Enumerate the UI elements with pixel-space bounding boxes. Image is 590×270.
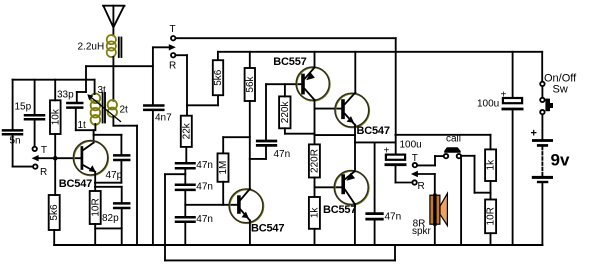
wire left top rail xyxy=(13,79,95,81)
wire 15p to T contact xyxy=(34,121,36,147)
speaker 8R xyxy=(430,193,448,225)
svg-text:47n: 47n xyxy=(274,149,291,160)
svg-text:R: R xyxy=(418,181,425,192)
svg-text:T: T xyxy=(412,153,418,164)
wire antenna tap node xyxy=(86,66,153,92)
wire Q4 emitter to Q5 emitter xyxy=(354,125,356,171)
resistor 1M xyxy=(218,153,229,181)
wire T contact to call button xyxy=(417,156,444,165)
inductor L1 2.2uH xyxy=(107,35,116,57)
call button xyxy=(444,147,461,158)
transistor Q5 BC557 xyxy=(334,170,369,205)
resistor 1k mid xyxy=(309,197,320,229)
wire 10R bottom to ground rail xyxy=(94,224,96,245)
transistor Q4 BC547 xyxy=(335,93,369,128)
transformer core xyxy=(103,93,105,123)
wire Q5 collector to ground rail xyxy=(354,204,356,245)
wire L1 bottom to transformer secondary xyxy=(112,57,114,101)
svg-text:47n: 47n xyxy=(196,182,213,193)
svg-text:82p: 82p xyxy=(102,213,119,224)
wire 220R bottom / base Q5 node xyxy=(315,178,342,198)
wire 220k bottom to emitter bus xyxy=(285,128,355,135)
svg-text:5k6: 5k6 xyxy=(49,204,60,221)
switch S1a pole arrow xyxy=(32,155,81,161)
transistor Q1 BC547 xyxy=(73,141,108,176)
wire 5n to R contact xyxy=(13,135,33,166)
wire 33p top jog xyxy=(77,92,86,102)
wire collector node Q2 xyxy=(223,137,250,153)
wire call right to 1k/10R junction xyxy=(461,156,490,193)
svg-text:47p: 47p xyxy=(106,170,123,181)
antenna xyxy=(103,6,125,36)
svg-text:10k: 10k xyxy=(51,108,62,125)
wire 5k6 to ground rail xyxy=(53,230,55,245)
wire switch pole to 4n7 xyxy=(153,44,176,104)
switch S1b R contact xyxy=(171,53,175,57)
wire call to ground rail xyxy=(460,158,462,245)
wire rail to 5n xyxy=(12,80,14,130)
svg-text:220k: 220k xyxy=(280,101,291,124)
svg-text:15p: 15p xyxy=(15,102,32,113)
wire VCC rail xyxy=(218,52,542,98)
ground rail xyxy=(54,244,542,246)
wire 82p bottom to ground rail xyxy=(95,209,122,245)
L1 core xyxy=(119,38,122,58)
svg-text:BC547: BC547 xyxy=(357,125,390,137)
battery 9v xyxy=(531,114,554,245)
svg-text:Sw: Sw xyxy=(553,84,568,96)
svg-text:R: R xyxy=(40,167,47,178)
wire base node to 5k6 xyxy=(54,158,56,195)
svg-text:+: + xyxy=(531,128,537,140)
wire base Q3 xyxy=(266,83,301,85)
svg-text:call: call xyxy=(446,134,461,145)
resistor 10R right xyxy=(485,200,496,234)
wire 220k top xyxy=(284,84,286,96)
wire 56k bottom to collector node xyxy=(249,101,251,190)
svg-text:2.2uH: 2.2uH xyxy=(78,42,105,53)
switch S1c T contact xyxy=(413,163,417,167)
resistor 56k xyxy=(245,68,255,101)
wire 1M bottom to base tap xyxy=(222,182,224,205)
capacitor 47n a xyxy=(176,163,195,168)
svg-text:2t: 2t xyxy=(120,105,129,116)
svg-text:47n: 47n xyxy=(196,214,213,225)
wire emitters to T-drop bus xyxy=(355,141,395,143)
capacitor 4n7 xyxy=(144,106,163,110)
svg-text:47n: 47n xyxy=(196,160,213,171)
capacitor 47p xyxy=(114,155,129,160)
resistor 22k xyxy=(181,116,192,147)
transistor Q2 BC547 xyxy=(229,189,263,224)
wire Q1 emitter xyxy=(94,172,96,192)
transformer primary top wire xyxy=(94,80,96,94)
switch S1a T contact xyxy=(33,147,37,151)
resistor 220k xyxy=(279,96,290,128)
wire base Q4 xyxy=(315,108,342,110)
wire rail to 10k xyxy=(54,80,56,101)
wire Q3 collector down xyxy=(314,100,316,144)
svg-text:+: + xyxy=(501,90,507,101)
capacitor 47n mid xyxy=(257,141,276,145)
svg-text:56k: 56k xyxy=(245,75,256,92)
capacitor 82p xyxy=(114,203,129,208)
svg-text:1k: 1k xyxy=(309,207,320,219)
wire 100u bottom to R contact xyxy=(396,166,413,183)
svg-text:47n: 47n xyxy=(385,212,402,223)
switch S1b T contact xyxy=(171,36,175,40)
capacitor 100u top right (electrolytic) xyxy=(503,98,522,109)
wire 100u right bottom to ground rail xyxy=(512,110,514,245)
wire 47p bottom to emitter node xyxy=(95,161,122,183)
resistor 10k xyxy=(50,100,61,134)
wire tap between 47n a-b to lower bus xyxy=(165,174,185,260)
svg-text:10R: 10R xyxy=(486,207,497,225)
svg-text:1k: 1k xyxy=(486,159,497,171)
wire rail to 15p xyxy=(34,80,36,114)
wire 47n spkr to ground rail xyxy=(374,220,376,245)
resistor 10R left xyxy=(90,191,101,224)
svg-text:BC557: BC557 xyxy=(273,56,306,68)
wire 47n b-c with base tap xyxy=(184,191,186,216)
wire 4n7 bottom to ground rail xyxy=(152,111,154,245)
svg-text:+: + xyxy=(384,146,390,157)
svg-text:100u: 100u xyxy=(477,99,499,110)
wire T-drop to 1k bus xyxy=(395,134,490,136)
svg-text:1M: 1M xyxy=(218,161,229,175)
wire base tap Q2 xyxy=(185,204,237,206)
capacitor 33p xyxy=(67,103,82,108)
resistor 5k6 top xyxy=(213,60,223,95)
svg-text:T: T xyxy=(41,145,47,156)
resistor 1k right xyxy=(485,149,496,181)
wire 47n a-b xyxy=(184,170,186,184)
capacitor 15p xyxy=(25,115,44,119)
svg-text:9v: 9v xyxy=(551,151,570,170)
svg-text:1t: 1t xyxy=(78,120,87,131)
wire 33p bottom to collector node xyxy=(76,109,94,143)
capacitor 47n spkr xyxy=(367,214,383,220)
switch S1c pole arrow xyxy=(411,171,435,194)
resistor 5k6 left xyxy=(49,195,60,230)
wire 22k to 47n chain xyxy=(185,147,187,162)
capacitor 5n xyxy=(3,130,22,134)
transistor Q3 BC557 xyxy=(296,67,330,101)
svg-text:BC557: BC557 xyxy=(323,204,356,216)
lower return bus xyxy=(165,245,395,260)
wire 1k mid to ground rail xyxy=(314,229,316,245)
svg-text:22k: 22k xyxy=(181,122,192,139)
svg-text:3t: 3t xyxy=(98,85,107,96)
wire 10k to base node xyxy=(54,134,56,158)
svg-text:10R: 10R xyxy=(90,198,101,216)
svg-text:5n: 5n xyxy=(10,136,21,147)
wire R contact to 22k node xyxy=(176,55,218,115)
wire 1k right top xyxy=(490,135,492,150)
capacitor 100u right of Q5 (electrolytic) xyxy=(386,155,405,165)
resistor 220R xyxy=(309,144,320,177)
transformer secondary bottom wire to ground xyxy=(113,117,137,245)
svg-text:spkr: spkr xyxy=(412,226,432,237)
wire 10R right to ground rail xyxy=(490,233,492,245)
capacitor 47n b xyxy=(176,185,195,190)
svg-text:5k6: 5k6 xyxy=(213,69,224,86)
transformer arrow xyxy=(87,94,120,121)
transformer secondary winding 2t xyxy=(108,100,117,117)
svg-text:33p: 33p xyxy=(57,90,74,101)
svg-text:R: R xyxy=(169,60,176,71)
wire Q2 emitter to ground xyxy=(249,221,251,246)
svg-text:100u: 100u xyxy=(400,140,422,151)
svg-text:T: T xyxy=(170,24,176,35)
transformer primary bottom wire xyxy=(94,124,96,130)
svg-text:4n7: 4n7 xyxy=(155,113,172,124)
svg-text:220R: 220R xyxy=(309,149,320,173)
capacitor 47n c xyxy=(176,217,195,222)
wire 47n mid bottom link xyxy=(250,147,266,159)
wire T rail xyxy=(176,38,396,154)
transformer T1 primary winding 3t xyxy=(91,94,101,125)
wire emitter node to 82p xyxy=(95,186,122,188)
svg-text:BC547: BC547 xyxy=(251,223,284,235)
junction dot base Q1 xyxy=(53,156,58,161)
switch On/Off xyxy=(540,82,553,115)
svg-text:BC547: BC547 xyxy=(59,178,92,190)
wire 47n c to ground rail xyxy=(184,223,186,245)
wire 47n mid top xyxy=(265,84,267,139)
switch S1a R contact xyxy=(33,164,37,168)
wire speaker to ground rail xyxy=(434,226,436,245)
wire collector node to 47p xyxy=(94,135,122,155)
switch S1c R contact xyxy=(412,180,416,184)
wire 47n spkr top xyxy=(374,142,376,212)
wire 1k to 10R right xyxy=(490,181,492,200)
